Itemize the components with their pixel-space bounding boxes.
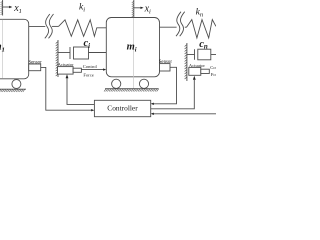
label control force right (clipped) [210,65,225,77]
svg-text:ki: ki [79,3,85,14]
svg-text:xi: xi [144,4,151,16]
wire sensor mi to controller [151,67,177,105]
svg-text:Force: Force [83,72,93,77]
ground under m1 [0,89,26,92]
arrow x1 [3,6,13,8]
svg-text:Control: Control [210,65,216,70]
sensor on mi [159,60,173,71]
damper ci [58,47,106,59]
reference wall x1 [1,0,3,16]
svg-text:cn: cn [199,39,208,51]
actuator right [189,63,210,75]
reference wall xi [132,0,134,17]
svg-text:Force: Force [211,72,216,77]
svg-text:x1: x1 [13,3,22,15]
svg-text:Control: Control [83,64,98,69]
mass m1 [0,19,29,79]
roller under m1 [12,80,21,89]
wire sensor m1 to controller [41,67,95,111]
center line mi [133,18,135,89]
actuator left [58,62,82,74]
center line m1 [2,20,4,79]
control force arrow left [81,64,106,77]
wall left mount [56,40,58,77]
arrow xi [134,7,144,9]
wire from mi to spring kn [160,26,177,28]
spring ki [59,20,107,37]
wire from m1 to spring ki [29,25,46,27]
sensor on m1 [28,60,42,70]
svg-text:kn: kn [196,8,203,19]
wire controller to actuator left [66,74,95,104]
wire offscreen sensor to controller [151,113,216,115]
controller [94,100,150,116]
mass mi [106,18,159,77]
spring kn [187,20,217,38]
damper cn [187,49,216,60]
ground under mi [104,89,159,92]
wall right mount [185,43,187,81]
svg-text:Controller: Controller [107,104,138,113]
break symbol right [176,12,185,37]
wire controller to actuator right [151,76,196,109]
rollers under mi [112,79,121,88]
svg-text:ci: ci [84,38,91,50]
break symbol left [45,14,54,38]
